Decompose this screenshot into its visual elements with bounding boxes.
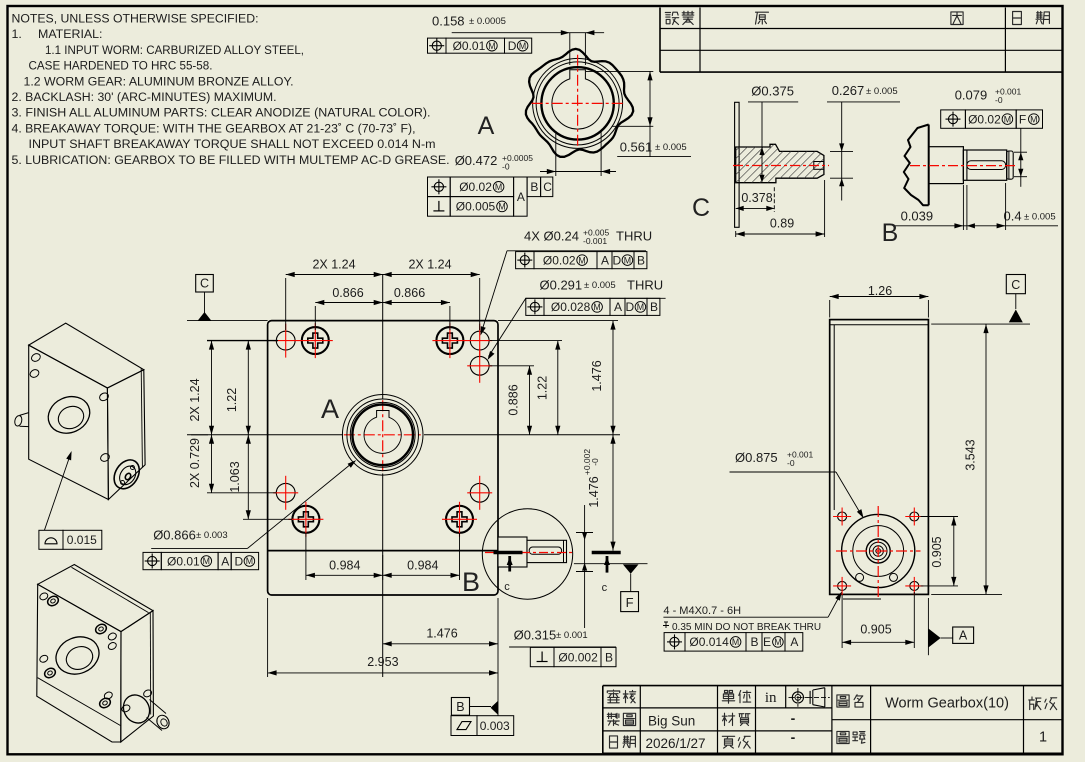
svg-text:-0: -0 <box>590 458 600 466</box>
hole H4 top-right <box>470 331 489 350</box>
view B break line <box>904 125 929 206</box>
svg-text:Ø0.02: Ø0.02 <box>459 180 492 194</box>
svg-text:± 0.0005: ± 0.0005 <box>469 16 506 27</box>
svg-text:1.476: 1.476 <box>426 627 457 641</box>
view A outer ring circles <box>533 58 623 148</box>
svg-text:M: M <box>495 182 502 192</box>
svg-text:D: D <box>626 300 635 314</box>
hole H9 bottom-right <box>470 483 489 502</box>
svg-text:2X 1.24: 2X 1.24 <box>408 258 451 272</box>
view C keyway hole <box>814 162 824 170</box>
svg-text:C: C <box>200 277 209 291</box>
detail shaft end lines <box>563 540 565 562</box>
hole H2 top-left counterbore <box>302 327 329 354</box>
svg-text:0.905: 0.905 <box>930 536 944 567</box>
svg-text:± 0.001: ± 0.001 <box>556 630 588 641</box>
svg-text:B: B <box>650 300 658 314</box>
right view corner hole 4 <box>910 581 919 590</box>
svg-text:0.267: 0.267 <box>832 83 865 98</box>
callout depth 0.35 <box>663 622 669 628</box>
svg-text:0.905: 0.905 <box>860 623 891 637</box>
svg-text:1.1 INPUT WORM: CARBURIZED ALL: 1.1 INPUT WORM: CARBURIZED ALLOY STEEL, <box>45 43 304 57</box>
svg-text:1.: 1. <box>12 27 22 41</box>
svg-text:Worm Gearbox(10): Worm Gearbox(10) <box>885 696 1009 712</box>
view A bold bore circle <box>541 67 613 139</box>
view C hatching <box>688 144 942 182</box>
dim 0.079 extension <box>1020 128 1022 187</box>
view B keyway slot <box>967 161 1006 170</box>
svg-text:M: M <box>1004 114 1011 124</box>
svg-text:0.015: 0.015 <box>67 533 97 547</box>
svg-text:± 0.005: ± 0.005 <box>655 142 687 153</box>
svg-text:A: A <box>959 629 968 643</box>
svg-text:Ø0.028: Ø0.028 <box>551 300 591 314</box>
section mark right <box>592 551 621 555</box>
svg-text:Ø0.472: Ø0.472 <box>455 153 498 168</box>
svg-text:0.866: 0.866 <box>332 286 363 300</box>
svg-text:M: M <box>593 302 600 312</box>
svg-text:A: A <box>321 394 339 424</box>
datum A flag <box>927 598 929 655</box>
svg-text:Ø0.02: Ø0.02 <box>968 112 1001 126</box>
svg-text:C: C <box>692 194 710 222</box>
detail shaft keyway slot <box>529 547 561 554</box>
svg-text:C: C <box>1011 278 1020 292</box>
svg-text:4X Ø0.24: 4X Ø0.24 <box>524 229 579 244</box>
svg-text:-0: -0 <box>787 458 795 468</box>
svg-text:0.561: 0.561 <box>620 140 653 155</box>
svg-text:B: B <box>456 700 464 714</box>
FCF perp dia0.002 B <box>530 647 554 666</box>
view B end cap <box>1007 151 1014 179</box>
svg-text:Ø0.01: Ø0.01 <box>167 554 200 568</box>
FCF pos dia0.014 <box>664 633 685 652</box>
svg-text:M: M <box>519 41 526 51</box>
view A keyway bore circle <box>552 70 603 129</box>
svg-text:F: F <box>626 595 634 610</box>
FCF dia0.291 pos dia0.028 <box>526 298 544 315</box>
svg-text:C: C <box>543 180 552 194</box>
FCF dia 0.02 two-row <box>428 177 451 197</box>
main bore bold circle <box>352 405 413 466</box>
svg-text:Big Sun: Big Sun <box>648 714 695 729</box>
hole H5 dia0.291 <box>470 356 489 375</box>
datum C flag right <box>1006 275 1025 294</box>
svg-text:E: E <box>763 635 771 649</box>
svg-text:M: M <box>488 41 495 51</box>
svg-text:A: A <box>601 253 609 267</box>
svg-text:± 0.003: ± 0.003 <box>196 530 228 541</box>
svg-text:M: M <box>578 255 585 265</box>
hole H6 bottom-left <box>276 483 295 502</box>
svg-text:0.4: 0.4 <box>1004 209 1022 224</box>
view C flange plate <box>735 102 740 227</box>
datum C flag left <box>196 275 214 293</box>
svg-text:0.003: 0.003 <box>480 719 510 733</box>
svg-text:Ø0.01: Ø0.01 <box>453 39 486 53</box>
right view shaft rings <box>866 539 890 563</box>
svg-text:-0: -0 <box>502 162 510 172</box>
main plate outline <box>268 321 498 595</box>
svg-text:2. BACKLASH: 30' (ARC-MINUTES): 2. BACKLASH: 30' (ARC-MINUTES) MAXIMUM. <box>12 90 277 104</box>
right view corner hole 2 <box>910 512 919 521</box>
right view bottom lip line <box>843 598 881 600</box>
svg-text:1.26: 1.26 <box>868 284 892 298</box>
svg-text:M: M <box>624 255 631 265</box>
main centerline horizontal <box>187 434 343 436</box>
svg-text:D: D <box>235 554 244 568</box>
svg-text:M: M <box>637 302 644 312</box>
svg-text:B: B <box>530 180 538 194</box>
section mark left <box>494 551 523 555</box>
iso FCF profile 0.015 <box>39 530 63 549</box>
svg-text:F: F <box>1019 112 1026 126</box>
view A red centerlines <box>532 102 623 104</box>
svg-text:4. BREAKAWAY TORQUE: WITH THE: 4. BREAKAWAY TORQUE: WITH THE GEARBOX AT… <box>12 121 416 135</box>
dimension 0.561 <box>586 70 653 72</box>
view A cast flange wavy outline <box>526 49 633 157</box>
detail red centerline <box>485 552 572 554</box>
svg-text:0.886: 0.886 <box>507 384 521 415</box>
detail shaft <box>527 540 567 562</box>
svg-text:A: A <box>790 635 798 649</box>
svg-text:1.22: 1.22 <box>225 388 239 412</box>
svg-text:0.35 MIN DO NOT BREAK THRU: 0.35 MIN DO NOT BREAK THRU <box>672 622 821 633</box>
hole H7 bottom-left counterbore <box>292 506 319 533</box>
right view inner left line <box>833 325 835 510</box>
svg-text:A: A <box>221 554 229 568</box>
svg-text:0.378: 0.378 <box>741 191 772 205</box>
svg-text:1.476: 1.476 <box>590 360 604 391</box>
detail circle B <box>482 509 572 599</box>
view C body section outline <box>736 144 824 182</box>
leader to hole 4X <box>482 251 508 332</box>
svg-text:THRU: THRU <box>616 229 652 244</box>
main centerline vertical <box>382 275 384 400</box>
svg-text:c: c <box>602 582 608 594</box>
view B shaft large section <box>929 147 964 184</box>
svg-text:-0: -0 <box>995 95 1003 105</box>
svg-text:B: B <box>462 567 480 597</box>
svg-text:Ø0.315: Ø0.315 <box>514 628 557 643</box>
svg-text:Ø0.002: Ø0.002 <box>558 650 598 664</box>
svg-text:1.476: 1.476 <box>587 476 601 507</box>
svg-text:B: B <box>882 219 899 247</box>
view B groove lines <box>962 150 964 180</box>
svg-text:2X 1.24: 2X 1.24 <box>312 258 355 272</box>
FCF 4x holes pos dia0.02 <box>516 252 534 269</box>
right view pin holes <box>856 573 864 581</box>
svg-text:THRU: THRU <box>627 277 663 292</box>
detail shaft boss block <box>498 537 527 567</box>
svg-text:-: - <box>791 710 796 726</box>
svg-text:B: B <box>637 253 645 267</box>
title block <box>602 686 604 754</box>
svg-text:1: 1 <box>1039 730 1047 746</box>
right view corner hole 3 <box>838 581 847 590</box>
svg-text:± 0.005: ± 0.005 <box>584 280 616 291</box>
FCF flatness 0.003 <box>451 716 477 736</box>
svg-text:in: in <box>765 690 777 706</box>
svg-text:Ø0.875: Ø0.875 <box>735 450 778 465</box>
svg-text:M: M <box>774 637 781 647</box>
svg-text:B: B <box>605 650 613 664</box>
svg-text:INPUT SHAFT BREAKAWAY TORQUE S: INPUT SHAFT BREAKAWAY TORQUE SHALL NOT E… <box>29 137 436 151</box>
isometric view bottom <box>38 565 153 632</box>
svg-text:2X 0.729: 2X 0.729 <box>188 438 202 488</box>
svg-text:-0.001: -0.001 <box>583 236 607 246</box>
dim dia0.315 <box>584 505 586 628</box>
svg-text:1.22: 1.22 <box>536 376 550 400</box>
hole H3 top-right counterbore <box>436 327 463 354</box>
main bore circles <box>342 395 423 476</box>
svg-text:M: M <box>732 637 739 647</box>
svg-text:0.866: 0.866 <box>394 286 425 300</box>
main bore red crosshair <box>344 434 424 436</box>
right view red crosshair <box>836 550 921 552</box>
svg-text:2.953: 2.953 <box>367 655 398 669</box>
dimension dia 0.472 bore <box>555 131 557 176</box>
datum F flag <box>574 563 648 565</box>
svg-text:3. FINISH ALL ALUMINUM PARTS:: 3. FINISH ALL ALUMINUM PARTS: CLEAR ANOD… <box>12 106 431 120</box>
svg-text:Ø0.014: Ø0.014 <box>689 635 729 649</box>
svg-text:± 0.005: ± 0.005 <box>866 86 898 97</box>
right view outline <box>830 320 929 595</box>
isometric view top <box>29 323 144 388</box>
main plate shelf line <box>268 550 498 552</box>
svg-text:M: M <box>498 202 505 212</box>
svg-text:5. LUBRICATION: GEARBOX TO BE: 5. LUBRICATION: GEARBOX TO BE FILLED WIT… <box>12 153 450 167</box>
svg-text:0.984: 0.984 <box>329 559 360 573</box>
svg-text:A: A <box>614 300 622 314</box>
svg-text:-: - <box>791 729 796 745</box>
svg-text:Ø0.005: Ø0.005 <box>456 200 496 214</box>
svg-text:Ø0.375: Ø0.375 <box>751 84 794 99</box>
svg-text:0.158: 0.158 <box>432 14 465 29</box>
svg-text:M: M <box>203 556 210 566</box>
svg-text:NOTES, UNLESS OTHERWISE SPECIF: NOTES, UNLESS OTHERWISE SPECIFIED: <box>12 12 259 26</box>
view B shaft small section <box>963 150 1006 180</box>
svg-text:0.079: 0.079 <box>955 88 988 103</box>
svg-text:c: c <box>504 581 510 593</box>
hole H1 top-left <box>276 331 295 350</box>
svg-text:A: A <box>517 190 525 204</box>
FCF pos dia0.02 F <box>941 110 966 128</box>
datum B flag bottom <box>451 698 469 716</box>
svg-text:B: B <box>751 635 759 649</box>
right view flange circles <box>842 514 915 587</box>
leader to hole dia0.291 <box>489 298 526 356</box>
svg-text:A: A <box>478 112 495 140</box>
svg-text:3.543: 3.543 <box>964 439 978 470</box>
svg-text:1.2 WORM GEAR: ALUMINUM BRONZE: 1.2 WORM GEAR: ALUMINUM BRONZE ALLOY. <box>24 74 294 88</box>
svg-text:CASE HARDENED TO HRC 55-58.: CASE HARDENED TO HRC 55-58. <box>29 59 213 73</box>
svg-text:2026/1/27: 2026/1/27 <box>646 736 706 751</box>
svg-text:MATERIAL:: MATERIAL: <box>38 27 103 41</box>
FCF dia0.866 pos <box>143 552 161 569</box>
svg-text:0.984: 0.984 <box>407 559 438 573</box>
right view inner top line <box>830 324 929 326</box>
FCF position dia 0.01 M D M <box>428 38 447 53</box>
svg-text:M: M <box>1030 114 1037 124</box>
svg-text:4 - M4X0.7 - 6H: 4 - M4X0.7 - 6H <box>663 605 741 617</box>
svg-text:± 0.005: ± 0.005 <box>1024 212 1056 223</box>
revision table <box>659 8 661 73</box>
svg-text:1.063: 1.063 <box>228 461 242 492</box>
svg-text:Ø0.291: Ø0.291 <box>540 277 583 292</box>
svg-text:2X 1.24: 2X 1.24 <box>188 378 202 421</box>
svg-text:D: D <box>508 39 517 53</box>
svg-text:0.89: 0.89 <box>770 217 794 231</box>
hole H8 bottom-right counterbore <box>446 506 473 533</box>
svg-text:M: M <box>246 556 253 566</box>
right view corner hole 1 <box>838 512 847 521</box>
svg-text:Ø0.866: Ø0.866 <box>153 528 196 543</box>
view B red centerline <box>910 165 1016 167</box>
view C red centerline <box>733 165 829 167</box>
svg-text:0.039: 0.039 <box>901 209 934 224</box>
svg-text:Ø0.02: Ø0.02 <box>543 253 576 267</box>
svg-text:D: D <box>613 253 622 267</box>
main bore keyway circle <box>364 411 401 454</box>
